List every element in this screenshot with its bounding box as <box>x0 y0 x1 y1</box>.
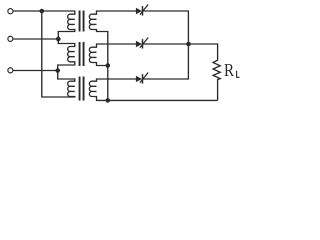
svg-text:R: R <box>224 60 235 81</box>
